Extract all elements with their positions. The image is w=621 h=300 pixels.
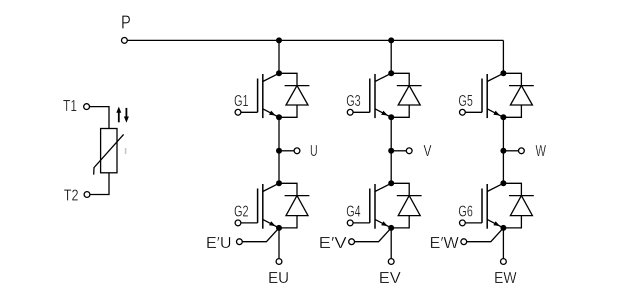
transistor Q2 (G2) [258,183,279,228]
node emitter Q3 [388,114,394,120]
arrow down (temperature) [124,108,129,123]
svg-text:T1: T1 [63,98,77,115]
wire node U to collector Q2 [278,151,280,184]
terminal E'V [349,239,355,245]
gate terminal G5 [460,109,483,115]
thermistor R1 (NTC) [94,129,124,175]
svg-text:G2: G2 [234,203,249,220]
svg-text:G1: G1 [234,93,249,110]
wire DC+ rail [127,39,503,41]
svg-text:V: V [424,143,432,160]
node U (phase output) [276,148,282,154]
junction rail / leg V [388,37,394,43]
diode D6 [503,183,533,228]
terminal U [294,148,300,154]
svg-text:E′W: E′W [430,235,460,252]
terminal T1 [84,104,90,110]
wire T1 to thermistor [89,107,109,129]
wire emitter Q3 to node V [390,117,392,151]
node collector Q4 [388,180,394,186]
node collector Q2 [276,180,282,186]
wire thermistor to T2 [90,173,109,195]
transistor Q5 (G5) [482,73,503,118]
wire E'U to emitter node [242,228,279,242]
wire emitter Q1 to node U [278,117,280,151]
diode D2 [279,183,309,228]
node V (phase output) [388,148,394,154]
svg-text:E′V: E′V [319,235,347,252]
transistor Q1 (G1) [258,73,279,118]
junction rail / leg U [276,37,282,43]
terminal W [519,148,525,154]
diode D4 [391,183,421,228]
terminal P [122,38,128,44]
node collector Q1 [276,70,282,76]
svg-text:U: U [310,143,318,160]
wire rail to collector Q5 [502,40,504,73]
terminal EU [276,259,282,265]
node collector Q5 [500,70,506,76]
terminal EV [388,259,394,265]
svg-text:P: P [121,13,131,33]
wire node W stub [503,150,518,152]
transistor Q6 (G6) [482,183,503,228]
arrow up (temperature) [116,107,121,123]
wire node W to collector Q6 [502,151,504,184]
gate terminal G4 [347,220,369,226]
svg-text:G6: G6 [458,203,473,220]
wire node U stub [279,150,294,152]
node emitter Q4 [388,225,394,231]
transistor Q4 (G4) [370,183,391,228]
wire rail to collector Q1 [278,40,280,73]
terminal V [406,148,412,154]
temperature dependence mark [125,148,127,154]
node emitter Q5 [500,114,506,120]
wire node V to collector Q4 [390,151,392,184]
node collector Q6 [500,180,506,186]
diode D5 [503,73,533,117]
terminal T2 [84,192,90,198]
svg-text:E′U: E′U [206,235,232,252]
svg-text:EV: EV [379,270,401,287]
diode D1 [279,73,309,117]
wire E'W to emitter node [467,228,504,242]
wire rail to collector Q3 [390,40,392,73]
svg-text:G3: G3 [346,93,361,110]
node W (phase output) [500,148,506,154]
wire E'V to emitter node [354,228,391,242]
node collector Q3 [388,70,394,76]
gate terminal G2 [235,220,258,226]
wire emitter Q2 to EU terminal [278,228,280,259]
svg-text:G5: G5 [458,93,473,110]
wire emitter Q6 to EW terminal [502,228,504,259]
transistor Q3 (G3) [370,73,391,118]
svg-text:EW: EW [494,270,517,287]
node emitter Q6 [500,225,506,231]
terminal EW [501,259,507,265]
wire node V stub [391,150,406,152]
svg-text:W: W [536,143,547,160]
diode D3 [391,73,421,117]
gate terminal G1 [235,109,258,115]
svg-text:EU: EU [268,270,289,287]
terminal E'U [237,239,243,245]
terminal E'W [461,239,467,245]
gate terminal G3 [347,109,369,115]
svg-text:G4: G4 [346,203,361,220]
wire emitter Q5 to node W [502,117,504,151]
node emitter Q2 [276,225,282,231]
node emitter Q1 [276,114,282,120]
wire emitter Q4 to EV terminal [390,228,392,259]
gate terminal G6 [460,220,483,226]
svg-text:T2: T2 [64,187,79,204]
